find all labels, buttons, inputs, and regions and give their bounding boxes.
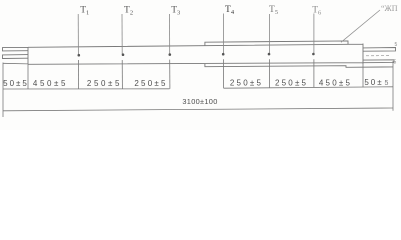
svg-text:50±: 50± — [364, 78, 383, 87]
lead wire lower-right centre dash — [366, 55, 389, 57]
dimension row bottom line right — [224, 87, 393, 88]
leader line to sleeve label — [341, 10, 380, 42]
svg-text:250±5: 250±5 — [230, 78, 263, 87]
sensor point T5 — [268, 53, 271, 56]
lead wire upper-right — [363, 48, 396, 52]
svg-text:5: 5 — [385, 80, 389, 87]
svg-text:T5: T5 — [269, 5, 278, 16]
sensor point T4 — [222, 53, 225, 56]
svg-text:T2: T2 — [124, 6, 133, 17]
overall dimension line 3100 — [3, 108, 393, 111]
extension line x=363 — [362, 64, 364, 87]
sensor point T2 — [122, 53, 125, 56]
svg-text:250±5: 250±5 — [87, 79, 122, 88]
sensor point T1 — [78, 54, 81, 57]
extension line x=3 — [2, 63, 4, 118]
extension line x=122 — [121, 60, 123, 89]
sensor point T3 — [169, 53, 172, 56]
extension line x=78 — [77, 60, 79, 89]
extension line x=393 — [392, 61, 394, 111]
svg-text:250±5: 250±5 — [134, 79, 167, 88]
dimension row top line far-left — [3, 62, 28, 65]
extension line x=313.9 — [313, 59, 315, 87]
svg-text:“ЖП: “ЖП — [381, 4, 398, 13]
svg-text:T4: T4 — [225, 5, 235, 16]
extension line x=223.6 — [223, 59, 225, 88]
lead wire lower-right — [363, 60, 394, 63]
leader line T4 — [223, 14, 225, 54]
svg-text:T1: T1 — [80, 6, 89, 17]
leader line T3 — [169, 14, 171, 54]
svg-text:50±5: 50±5 — [3, 79, 29, 88]
leader line T1 — [77, 14, 79, 54]
extension line x=269.4 — [268, 59, 270, 88]
sleeve jacket top — [205, 41, 348, 46]
svg-text:450±5: 450±5 — [33, 79, 68, 88]
leader line T6 — [313, 14, 315, 54]
leader line T5 — [268, 14, 270, 53]
dimension row bottom line left — [3, 88, 170, 90]
lead wire lower-left — [3, 55, 29, 59]
svg-text:450±5: 450±5 — [319, 78, 352, 87]
svg-text:5: 5 — [395, 42, 398, 48]
svg-text:5: 5 — [394, 60, 397, 66]
svg-text:250±5: 250±5 — [275, 78, 308, 87]
svg-text:T3: T3 — [171, 6, 180, 17]
extension line x=169.5 — [169, 60, 171, 89]
sensor point T6 — [312, 53, 315, 56]
lead wire upper-left — [3, 47, 29, 51]
svg-text:T6: T6 — [312, 6, 322, 17]
heater body tube — [28, 44, 363, 65]
extension line x=28 — [27, 64, 29, 89]
sleeve jacket bottom — [205, 64, 393, 67]
svg-text:3100±100: 3100±100 — [182, 97, 217, 106]
leader line T2 — [121, 14, 123, 54]
